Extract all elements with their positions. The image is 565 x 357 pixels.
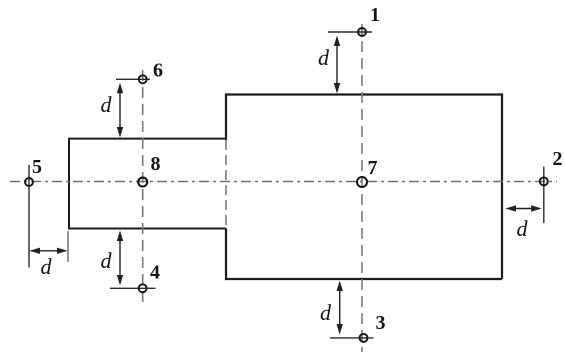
svg-text:2: 2: [553, 148, 563, 170]
small plate outline: [69, 138, 226, 230]
svg-text:d: d: [318, 45, 330, 70]
big plate outline (solid edges): [226, 93, 502, 280]
svg-text:3: 3: [376, 312, 386, 334]
dim arrow d at point 5: [30, 248, 68, 254]
point 2: [540, 148, 563, 223]
svg-text:6: 6: [153, 60, 163, 82]
point 4: [110, 262, 160, 293]
svg-text:d: d: [101, 248, 113, 273]
vertical centerline through 1-7-3: [361, 24, 363, 352]
point 1: [328, 4, 380, 36]
svg-text:4: 4: [150, 262, 160, 284]
vertical centerline through 6-8-4: [142, 70, 144, 303]
svg-text:d: d: [517, 216, 529, 241]
horizontal centerline: [10, 181, 557, 183]
dim arrow d at point 3: [337, 281, 343, 335]
point 6: [116, 60, 163, 84]
svg-text:d: d: [101, 92, 113, 117]
svg-text:d: d: [41, 254, 53, 279]
point 5: [25, 156, 42, 267]
svg-text:d: d: [320, 300, 332, 325]
dim arrow d at point 4: [117, 231, 123, 286]
point 8: [138, 153, 160, 187]
svg-text:7: 7: [368, 157, 378, 179]
point 7: [357, 157, 378, 187]
dim arrow d at point 6: [117, 83, 123, 138]
point 3: [330, 312, 386, 342]
svg-text:1: 1: [370, 4, 380, 26]
dim arrow d at point 2: [506, 205, 542, 211]
svg-text:8: 8: [151, 153, 161, 175]
svg-text:5: 5: [32, 156, 42, 178]
hidden left edge of big plate (dashed): [225, 140, 227, 229]
extension line below small plate left edge: [67, 231, 69, 262]
dim arrow d at point 1: [334, 36, 340, 94]
